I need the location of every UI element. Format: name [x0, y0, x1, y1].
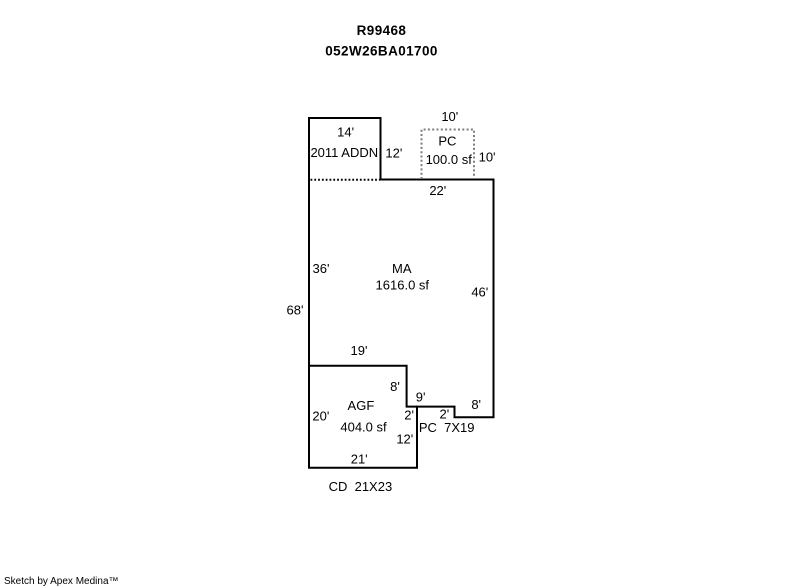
dotted porch PC 10x10 outline — [422, 130, 475, 180]
svg-text:36': 36' — [313, 261, 330, 276]
svg-text:10': 10' — [441, 109, 458, 124]
svg-text:10': 10' — [479, 150, 496, 165]
svg-text:PC: PC — [438, 133, 456, 148]
svg-text:CD 21X23: CD 21X23 — [329, 479, 393, 494]
outer wall outline (MA + ADDN + AGF perimeter) — [309, 118, 494, 468]
svg-text:12': 12' — [385, 145, 402, 160]
svg-text:8': 8' — [390, 379, 400, 394]
svg-text:052W26BA01700: 052W26BA01700 — [325, 43, 438, 58]
svg-text:46': 46' — [471, 284, 488, 299]
svg-text:21': 21' — [351, 452, 368, 467]
svg-text:PC 7X19: PC 7X19 — [419, 420, 475, 435]
svg-text:68': 68' — [287, 302, 304, 317]
svg-text:9': 9' — [416, 389, 426, 404]
svg-text:100.0 sf: 100.0 sf — [426, 152, 473, 167]
svg-text:12': 12' — [396, 431, 413, 446]
svg-text:2': 2' — [404, 408, 414, 423]
svg-text:2011 ADDN: 2011 ADDN — [310, 145, 378, 160]
dotted old wall under 2011 ADDN — [311, 179, 380, 181]
svg-text:8': 8' — [471, 397, 481, 412]
svg-text:MA: MA — [392, 261, 412, 276]
svg-text:Sketch by Apex Medina™: Sketch by Apex Medina™ — [4, 576, 119, 587]
svg-text:20': 20' — [312, 408, 329, 423]
svg-text:22': 22' — [429, 183, 446, 198]
svg-text:404.0 sf: 404.0 sf — [340, 420, 387, 435]
svg-text:14': 14' — [337, 124, 354, 139]
svg-text:19': 19' — [351, 343, 368, 358]
svg-text:2': 2' — [440, 406, 450, 421]
svg-text:R99468: R99468 — [357, 23, 407, 38]
svg-text:AGF: AGF — [348, 398, 375, 413]
svg-text:1616.0 sf: 1616.0 sf — [376, 278, 430, 293]
MA / AGF divider wall — [309, 366, 417, 407]
